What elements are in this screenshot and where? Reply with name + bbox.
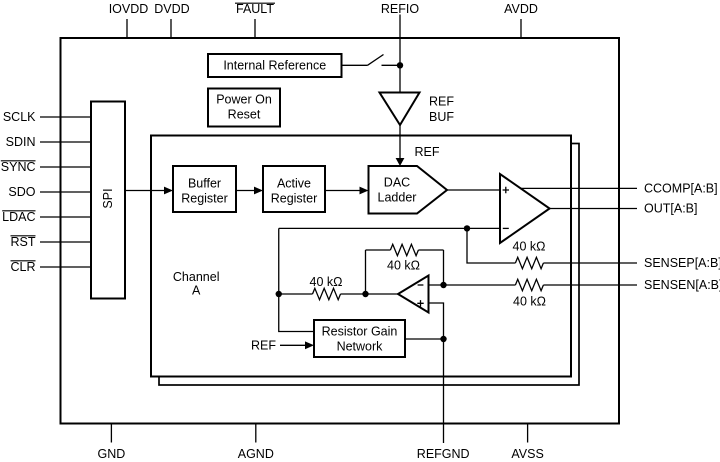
svg-text:Resistor Gain: Resistor Gain — [322, 324, 398, 338]
svg-text:Register: Register — [271, 192, 318, 206]
svg-text:SENSEP[A:B]: SENSEP[A:B] — [644, 256, 720, 270]
svg-text:Power On: Power On — [216, 92, 272, 106]
svg-text:Channel: Channel — [173, 270, 220, 284]
svg-text:SDO: SDO — [8, 185, 35, 199]
svg-text:REF: REF — [429, 95, 454, 109]
svg-text:Buffer: Buffer — [188, 177, 221, 191]
svg-text:REFIO: REFIO — [381, 2, 419, 16]
svg-text:REFGND: REFGND — [417, 447, 470, 461]
svg-text:Internal Reference: Internal Reference — [223, 58, 326, 72]
svg-text:40 kΩ: 40 kΩ — [513, 294, 546, 308]
svg-text:GND: GND — [98, 447, 126, 461]
svg-text:40 kΩ: 40 kΩ — [513, 240, 546, 254]
svg-text:SCLK: SCLK — [3, 110, 36, 124]
svg-text:SENSEN[A:B]: SENSEN[A:B] — [644, 278, 720, 292]
svg-text:Network: Network — [337, 339, 384, 353]
svg-text:Active: Active — [277, 177, 311, 191]
svg-text:DVDD: DVDD — [154, 2, 189, 16]
svg-text:SYNC: SYNC — [1, 160, 36, 174]
svg-text:IOVDD: IOVDD — [109, 2, 149, 16]
svg-text:A: A — [192, 283, 201, 297]
svg-text:REF: REF — [415, 145, 440, 159]
svg-text:DAC: DAC — [384, 175, 410, 189]
svg-text:FAULT: FAULT — [236, 2, 274, 16]
svg-text:SDIN: SDIN — [6, 135, 36, 149]
svg-text:AGND: AGND — [238, 447, 274, 461]
svg-text:BUF: BUF — [429, 110, 454, 124]
svg-text:LDAC: LDAC — [2, 210, 35, 224]
svg-text:CCOMP[A:B]: CCOMP[A:B] — [644, 181, 718, 195]
svg-text:RST: RST — [11, 235, 36, 249]
svg-text:40 kΩ: 40 kΩ — [310, 275, 343, 289]
svg-text:CLR: CLR — [10, 260, 35, 274]
svg-text:40 kΩ: 40 kΩ — [387, 259, 420, 273]
svg-text:Reset: Reset — [228, 107, 261, 121]
svg-text:Register: Register — [181, 192, 228, 206]
svg-text:OUT[A:B]: OUT[A:B] — [644, 201, 697, 215]
svg-text:AVDD: AVDD — [504, 2, 538, 16]
svg-text:SPI: SPI — [101, 188, 115, 208]
svg-text:AVSS: AVSS — [511, 447, 543, 461]
svg-text:Ladder: Ladder — [378, 191, 417, 205]
svg-text:REF: REF — [251, 339, 276, 353]
